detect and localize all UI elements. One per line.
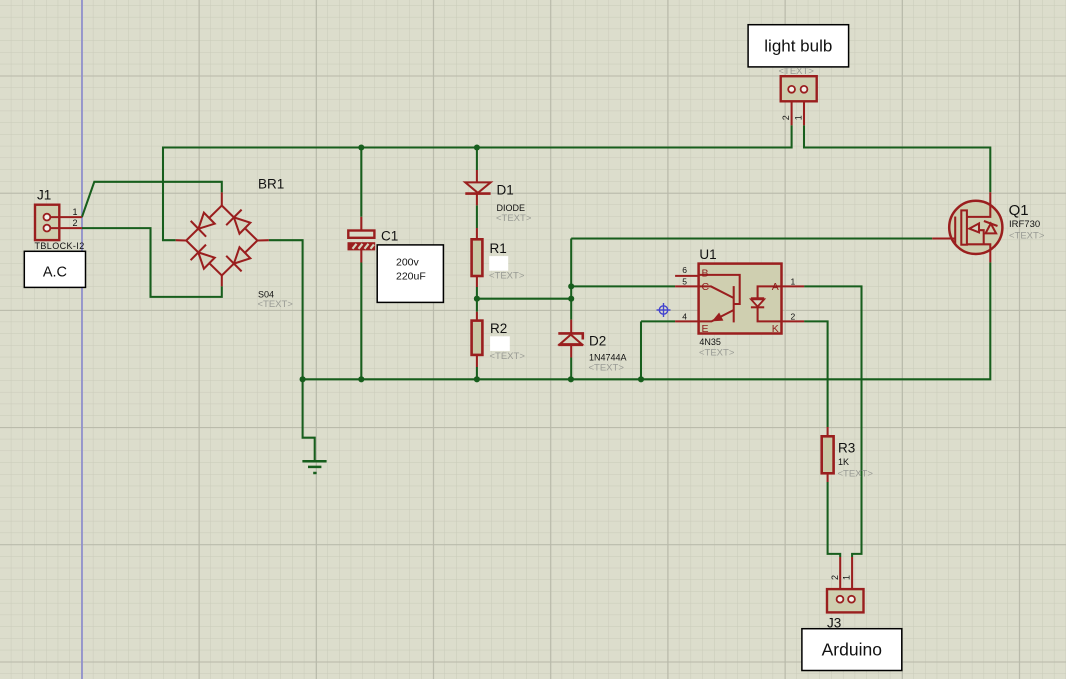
svg-text:J1: J1	[37, 188, 51, 203]
svg-text:E: E	[702, 323, 709, 335]
bridge rectifier BR1	[176, 192, 269, 286]
junction gate line / R1-R2 node	[568, 296, 574, 302]
svg-text:2: 2	[781, 115, 791, 120]
svg-text:A: A	[772, 281, 779, 293]
svg-text:<TEXT>: <TEXT>	[589, 362, 625, 373]
wire U1 pin 1 to J3 pin 1	[804, 286, 861, 557]
svg-text:<TEXT>: <TEXT>	[496, 213, 532, 224]
sheet border line	[81, 0, 83, 679]
annotation box A.C	[24, 251, 85, 287]
svg-text:1: 1	[72, 207, 77, 217]
resistor R2	[472, 312, 526, 367]
svg-text:<TEXT>: <TEXT>	[1009, 231, 1045, 242]
bridge diode bottom-left	[198, 252, 214, 268]
mosfet Q1	[932, 192, 1045, 262]
svg-text:<TEXT>: <TEXT>	[699, 347, 735, 358]
connector J2 light bulb	[781, 76, 817, 125]
wire ground branch	[303, 379, 315, 461]
svg-text:Arduino: Arduino	[822, 640, 882, 660]
svg-text:BR1: BR1	[258, 177, 284, 192]
svg-text:D1: D1	[497, 183, 514, 198]
connector J1	[35, 188, 85, 251]
optocoupler U1	[675, 247, 804, 358]
connector J3	[827, 557, 864, 630]
wire R2 to bottom rail	[476, 367, 478, 379]
wire R3 to J3 pin 2	[828, 482, 841, 557]
wire J1 pin 1 to bridge top vertex	[82, 182, 222, 217]
zener diode D2	[558, 320, 626, 374]
annotation box light bulb	[748, 25, 849, 77]
junction bottom rail / R2 branch	[474, 376, 480, 382]
wire bridge right vertex to bottom rail	[269, 240, 303, 379]
bridge diode top-right	[234, 217, 250, 233]
diode D1	[465, 170, 532, 224]
svg-text:R2: R2	[490, 321, 507, 336]
svg-text:<TEXT>: <TEXT>	[258, 299, 294, 310]
svg-text:2: 2	[72, 218, 77, 228]
wire light bulb pin 1 to Q1 drain	[804, 125, 990, 192]
wire C1 top branch	[360, 148, 362, 217]
svg-text:200v: 200v	[396, 257, 420, 269]
svg-text:C1: C1	[381, 229, 398, 244]
svg-text:TBLOCK-I2: TBLOCK-I2	[35, 241, 85, 251]
junction bottom rail / U1 pin 4 branch	[638, 376, 644, 382]
svg-text:<TEXT>: <TEXT>	[838, 468, 874, 479]
svg-text:A.C: A.C	[43, 264, 67, 280]
wire D2 bottom to rail	[570, 358, 572, 380]
wire J1 pin 2 to bridge bottom vertex	[82, 228, 222, 297]
wire R1 to R2	[476, 287, 478, 312]
wire D2 vertical upper	[570, 239, 572, 320]
resistor R3	[822, 427, 874, 482]
svg-text:6: 6	[682, 265, 687, 275]
svg-text:Q1: Q1	[1009, 202, 1029, 219]
junction top rail / C1 branch	[358, 144, 364, 150]
bridge diode top-left	[198, 213, 214, 229]
svg-text:R3: R3	[838, 440, 855, 455]
wire U1 pin 4 to bottom rail	[641, 320, 675, 322]
svg-text:<TEXT>: <TEXT>	[489, 271, 525, 282]
svg-text:1: 1	[794, 115, 804, 120]
svg-text:R1: R1	[490, 241, 507, 256]
wire gate line to Q1	[571, 237, 932, 239]
svg-text:DIODE: DIODE	[497, 203, 526, 213]
svg-text:5: 5	[682, 277, 687, 287]
wire D1 top branch	[476, 148, 478, 171]
wire to U1 pin 5	[571, 285, 675, 287]
svg-text:U1: U1	[699, 247, 716, 262]
svg-text:light bulb: light bulb	[764, 37, 832, 56]
wire D1 to R1	[476, 205, 478, 228]
annotation box 200v 220uF	[377, 245, 443, 303]
junction top rail / D1 branch	[474, 144, 480, 150]
svg-text:<TEXT>: <TEXT>	[779, 66, 815, 77]
junction gate line / U1 pin 5	[568, 283, 574, 289]
junction bottom rail / C1 branch	[358, 376, 364, 382]
junction bottom rail / ground branch	[300, 376, 306, 382]
junction R1-R2 node	[474, 296, 480, 302]
svg-text:4: 4	[682, 312, 687, 322]
svg-text:220uF: 220uF	[396, 270, 426, 282]
ground	[302, 461, 326, 473]
junction bottom rail / D2 branch	[568, 376, 574, 382]
wire U1 pin 2 to R3	[804, 321, 828, 427]
no-ERC blue marker	[657, 303, 671, 317]
svg-text:D2: D2	[589, 334, 606, 349]
svg-text:IRF730: IRF730	[1009, 219, 1040, 230]
wire top rail from bridge left vertex to light bulb pin 2	[163, 125, 792, 240]
resistor R1	[472, 228, 525, 287]
capacitor C1	[348, 217, 398, 263]
svg-text:1: 1	[791, 277, 796, 287]
wire C1 bottom branch	[360, 263, 362, 380]
svg-text:K: K	[772, 323, 779, 335]
wire node to D2 vertical	[477, 298, 571, 300]
bridge diode bottom-right	[234, 247, 250, 263]
svg-text:1K: 1K	[838, 457, 849, 467]
svg-text:1N4744A: 1N4744A	[589, 353, 627, 363]
svg-text:4N35: 4N35	[699, 337, 721, 347]
wire bottom rail to Q1 source	[303, 262, 991, 379]
svg-text:B: B	[702, 268, 709, 280]
svg-text:<TEXT>: <TEXT>	[490, 351, 526, 362]
svg-text:2: 2	[791, 312, 796, 322]
annotation box Arduino	[802, 629, 902, 671]
svg-text:C: C	[702, 281, 710, 293]
svg-text:1: 1	[842, 575, 852, 580]
svg-text:2: 2	[830, 575, 840, 580]
